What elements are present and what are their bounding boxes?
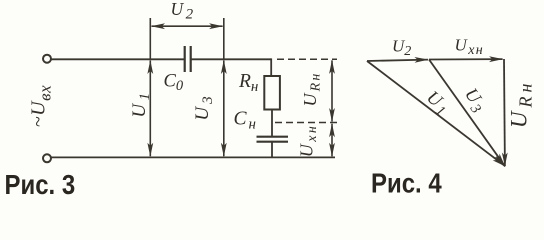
vector UXH phasor [429,58,503,60]
dimension arrow U2 [152,25,223,27]
svg-text:U1: U1 [129,89,153,117]
wire bottom rail [51,156,335,158]
dashed extension RC junction [275,122,337,124]
svg-text:U1: U1 [421,88,455,121]
dimension arrow URH [331,60,333,121]
svg-text:Uхн: Uхн [455,36,485,59]
svg-text:~Uвх: ~Uвх [28,85,55,128]
dashed extension top node [277,58,337,60]
extension line U2 left [149,18,151,59]
vector U3 phasor [429,60,505,167]
svg-text:C0: C0 [164,72,184,95]
svg-text:U2: U2 [392,37,411,60]
label URH circuit [300,71,324,106]
svg-text:Рис. 4: Рис. 4 [371,167,442,198]
vector U2 phasor [367,60,428,61]
label U3 circuit [192,93,216,120]
capacitor CH plates [257,137,289,142]
wire top rail left of C0 [51,58,184,60]
svg-text:Rн: Rн [238,71,258,95]
svg-text:Cн: Cн [234,109,258,133]
label UXH circuit [297,124,321,157]
svg-text:Рис. 3: Рис. 3 [5,168,76,198]
wire CH to bottom rail [271,142,273,158]
svg-text:URн: URн [300,71,324,106]
caption Ris.4 [371,167,442,199]
wire top rail right of C0 [192,58,272,60]
dimension arrow U3 [223,61,225,157]
capacitor C0 plates [185,46,191,72]
dimension arrow UXH [331,124,333,157]
caption Ris.3 [5,168,76,200]
terminal top-left [43,55,51,63]
label URH phasor [507,80,536,129]
label U1 phasor [421,88,455,121]
terminal bottom-left [43,154,51,162]
svg-text:U2: U2 [171,0,196,23]
label ~Uvx [28,85,55,128]
extension line U2 right [223,18,225,59]
label U3 phasor [458,85,491,118]
wire resistor to CH [271,110,273,137]
svg-text:URн: URн [507,80,536,129]
vector URH phasor [503,59,506,166]
resistor RH body [264,76,280,110]
label U1 circuit [129,89,153,117]
wire drop to resistor [270,58,272,76]
svg-text:Uхн: Uхн [297,124,321,157]
svg-text:U3: U3 [192,93,216,120]
svg-text:U3: U3 [458,85,491,118]
dimension arrow U1 [149,61,151,157]
vector U1 phasor [367,61,505,166]
